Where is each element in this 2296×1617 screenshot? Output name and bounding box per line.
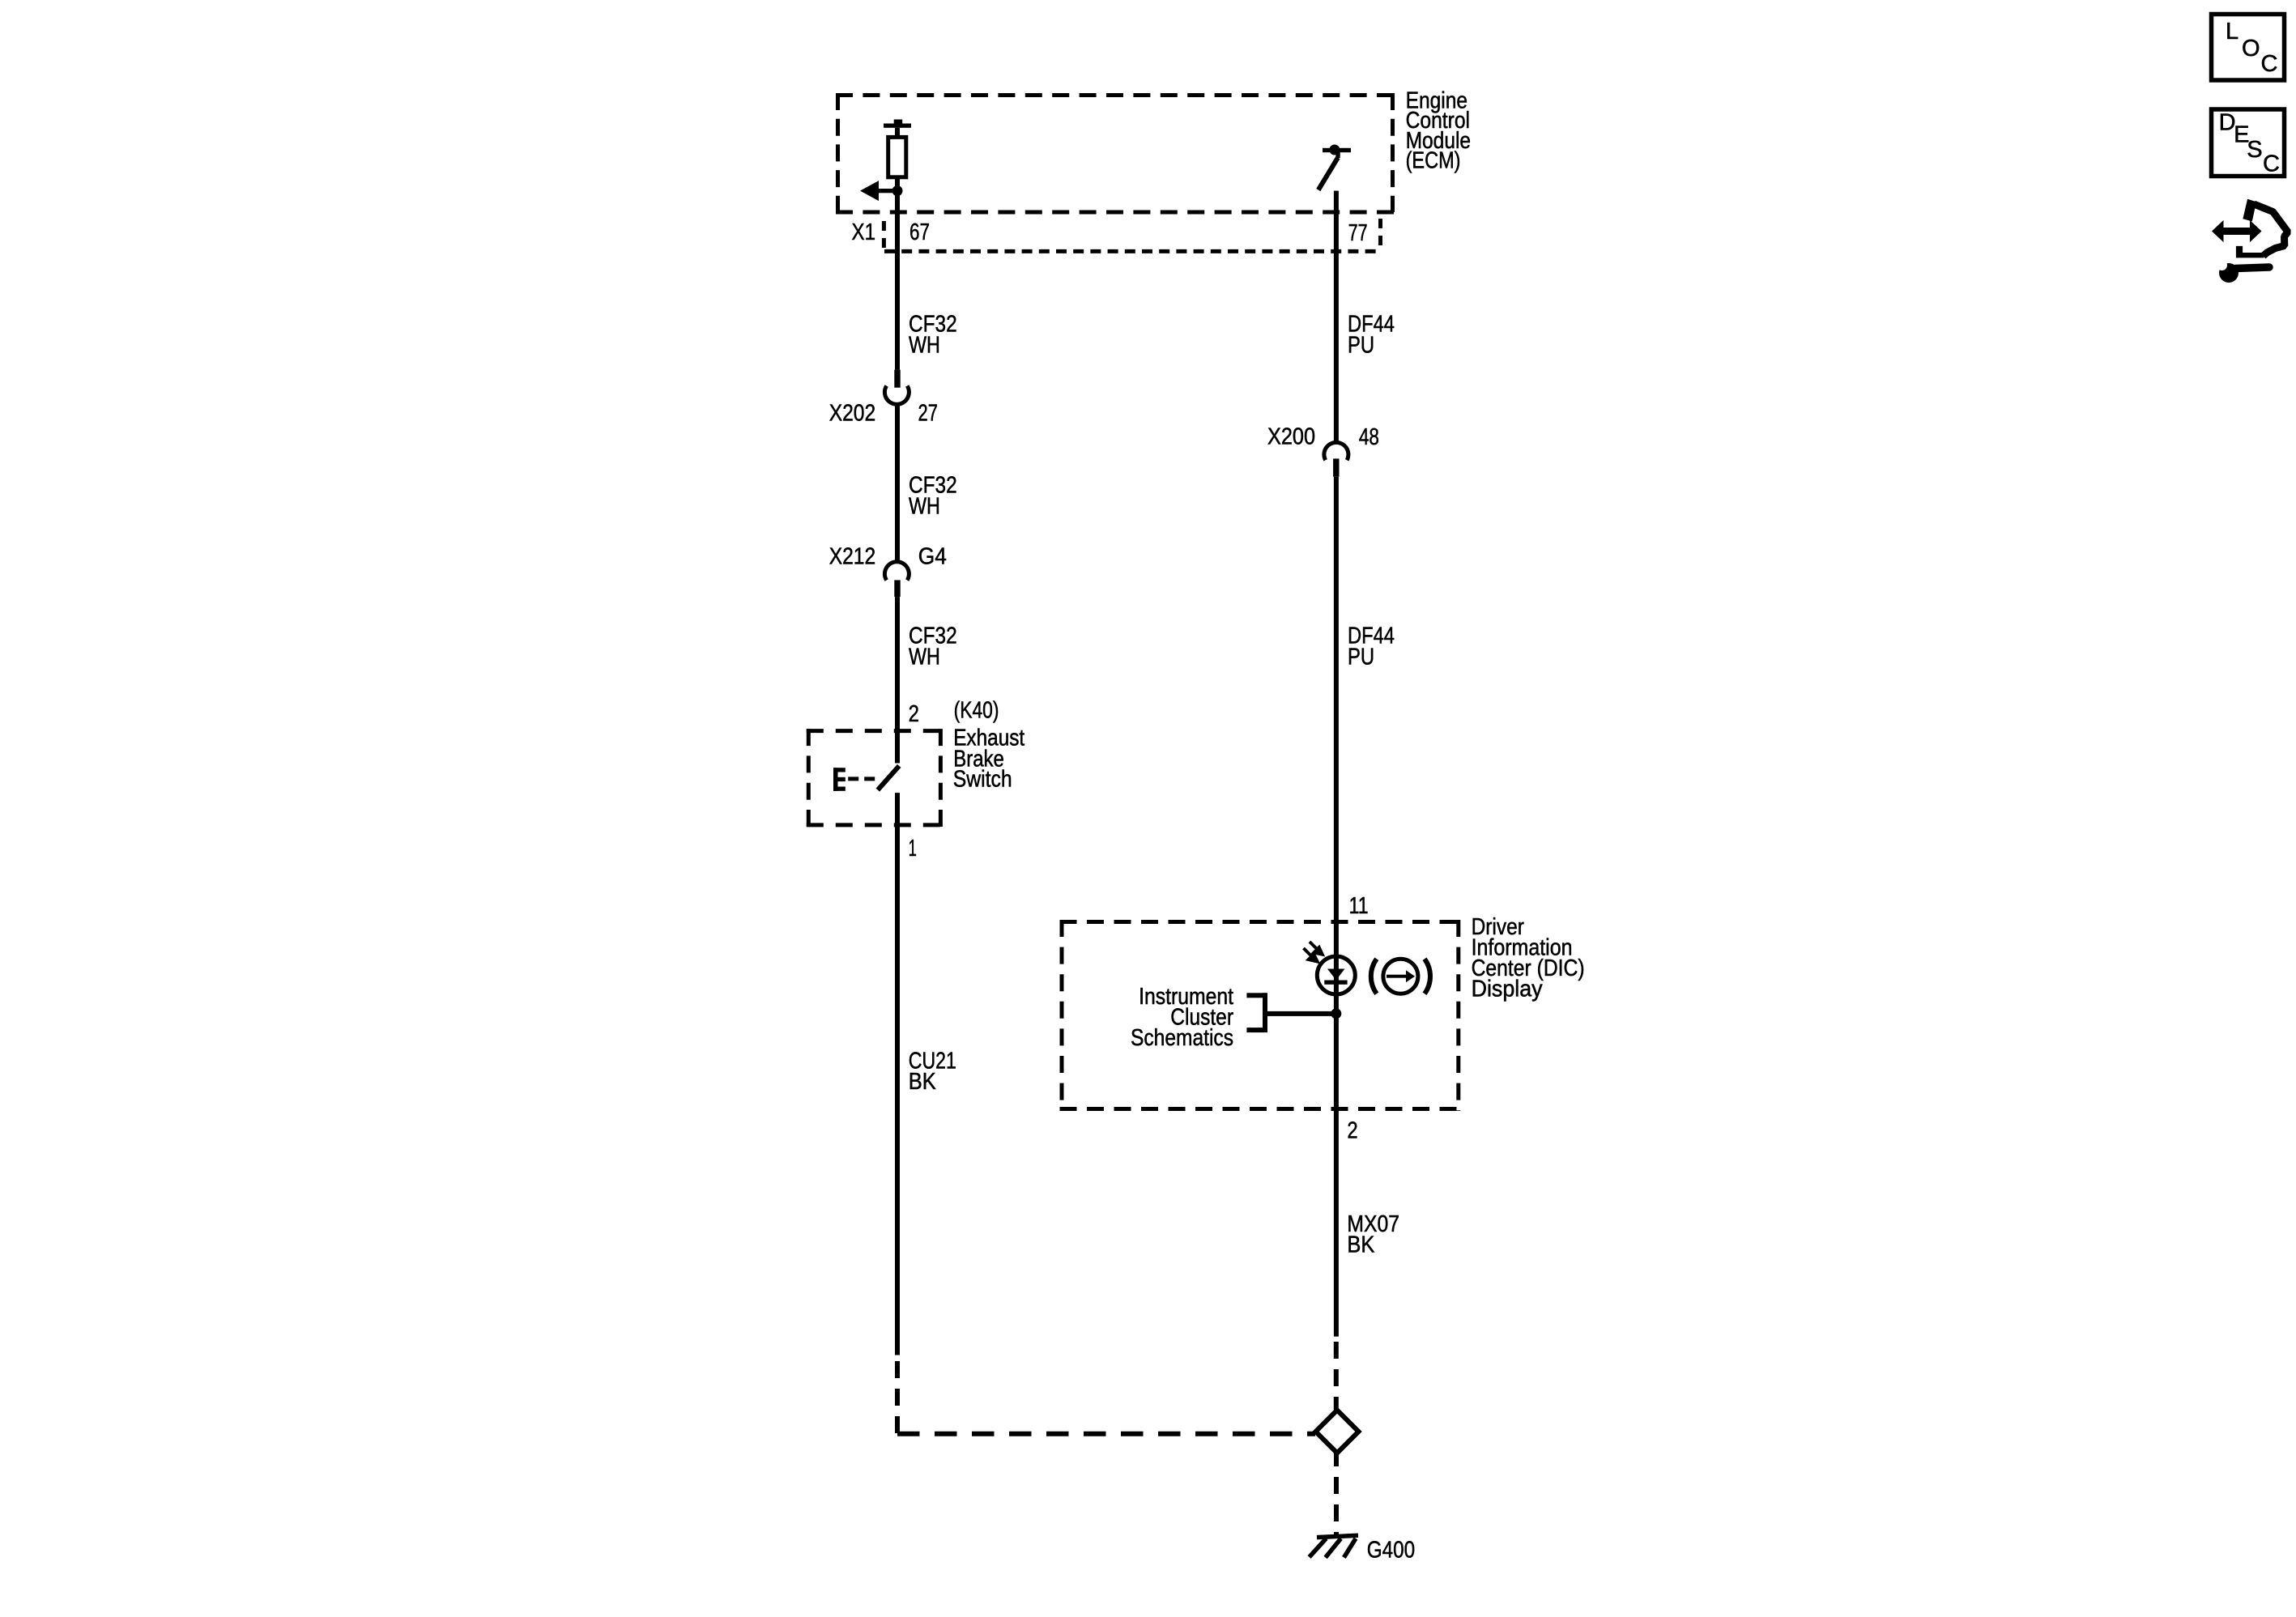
connector X200 female arc [1324, 442, 1348, 460]
wire MX07 BK solid segment [1334, 1111, 1339, 1337]
svg-text:Schematics: Schematics [1131, 1025, 1233, 1051]
svg-text:67: 67 [909, 219, 930, 245]
wire CF32 middle segment (X202 to X212) [895, 403, 900, 564]
svg-text:2: 2 [1347, 1117, 1357, 1143]
svg-text:X1: X1 [852, 219, 876, 245]
splice diamond [1316, 1411, 1359, 1453]
LED diode triangle [1327, 969, 1345, 981]
Exhaust Brake Switch dashed box [807, 729, 943, 827]
svg-text:G4: G4 [918, 544, 947, 570]
wire CF32 lower segment (X212 to K40 switch) [895, 597, 900, 763]
switch actuator E symbol [833, 768, 846, 791]
wire from bracket to junction [1267, 1011, 1336, 1016]
connector X212 female arc [884, 562, 909, 581]
LOC box [2212, 15, 2285, 81]
svg-text:WH: WH [909, 333, 940, 359]
connector X200 male stub [1333, 458, 1339, 476]
exhaust brake switch blade [878, 766, 899, 790]
wire DF44 upper segment (pin 77 to X200) [1334, 191, 1339, 443]
label Instrument Cluster Schematics [1131, 984, 1233, 1051]
LED light arrows [1304, 942, 1323, 962]
wire CF32 upper segment (pin 67 to X202) [895, 191, 900, 370]
exhaust brake indicator circle [1383, 959, 1418, 994]
svg-text:L: L [2226, 19, 2238, 45]
svg-text:BK: BK [1347, 1232, 1375, 1258]
indicator arrow [1387, 970, 1415, 982]
junction node at LED cathode [1331, 1008, 1341, 1019]
svg-text:Switch: Switch [953, 767, 1012, 793]
svg-text:C: C [2263, 151, 2280, 177]
switch actuator dashed link [848, 777, 875, 781]
svg-text:WH: WH [909, 645, 940, 670]
X1 connector strip dashed lines [884, 219, 1380, 251]
svg-text:Display: Display [1472, 977, 1543, 1002]
svg-text:27: 27 [918, 400, 938, 426]
connector X212 male stub [894, 580, 900, 597]
label Exhaust Brake Switch [953, 725, 1024, 792]
svg-text:2: 2 [909, 701, 919, 727]
svg-text:1: 1 [909, 836, 917, 862]
svg-text:X212: X212 [829, 544, 875, 570]
connector X202 male stub [894, 370, 900, 388]
LOC letters [2226, 19, 2277, 77]
svg-text:(ECM): (ECM) [1406, 148, 1461, 174]
service icon wrench [2217, 259, 2269, 283]
resistor inside ECM [888, 137, 906, 177]
svg-text:BK: BK [909, 1069, 937, 1095]
svg-text:48: 48 [1359, 424, 1379, 450]
service icon bottom bracket [2236, 246, 2264, 258]
svg-text:(K40): (K40) [954, 698, 999, 724]
svg-text:X202: X202 [829, 400, 875, 426]
svg-text:PU: PU [1348, 333, 1374, 359]
ECM internal switch blade [1318, 158, 1338, 190]
DESC box [2212, 109, 2285, 177]
DESC letters [2219, 110, 2280, 177]
svg-text:WH: WH [909, 494, 940, 520]
wire DF44 lower segment (X200 to DIC) [1334, 477, 1339, 1111]
ECM internal switch T-bar (right, pin 77) [1323, 145, 1351, 159]
indicator parentheses [1371, 959, 1377, 994]
wire from resistor to junction [895, 177, 900, 194]
arrow pointing left inside ECM [860, 181, 897, 201]
LED cathode bar [1324, 981, 1347, 985]
svg-text:S: S [2247, 137, 2262, 163]
service icon part outline body [2254, 204, 2288, 256]
connector X202 female arc [884, 386, 909, 405]
ECM internal driver T-bar with dot (left, pin 67) [884, 120, 911, 138]
wire CU21 dashed vertical segment [895, 1361, 900, 1434]
ECM module dashed box [836, 93, 1395, 212]
svg-text:X200: X200 [1267, 424, 1315, 450]
svg-text:77: 77 [1348, 220, 1368, 246]
service icon double arrow [2212, 220, 2262, 242]
reference bracket [1246, 993, 1267, 1032]
ground symbol G400 [1310, 1535, 1358, 1557]
DIC display dashed box [1060, 920, 1461, 1111]
wire MX07 dashed segment to splice [1334, 1342, 1339, 1410]
service icon part outline pole [2243, 199, 2256, 222]
junction node inside ECM [892, 185, 903, 196]
svg-text:O: O [2242, 36, 2260, 62]
wire dashed horizontal segment to splice [897, 1432, 1315, 1436]
ECM label text [1406, 88, 1472, 174]
LED indicator circle [1317, 956, 1355, 994]
svg-text:C: C [2261, 51, 2278, 77]
dashed wire splice to ground [1334, 1449, 1339, 1536]
svg-text:11: 11 [1349, 893, 1369, 919]
label Driver Information Center (DIC) Display [1472, 914, 1585, 1002]
svg-text:PU: PU [1348, 645, 1374, 670]
svg-text:G400: G400 [1367, 1537, 1415, 1563]
wire CU21 BK solid segment [895, 793, 900, 1355]
